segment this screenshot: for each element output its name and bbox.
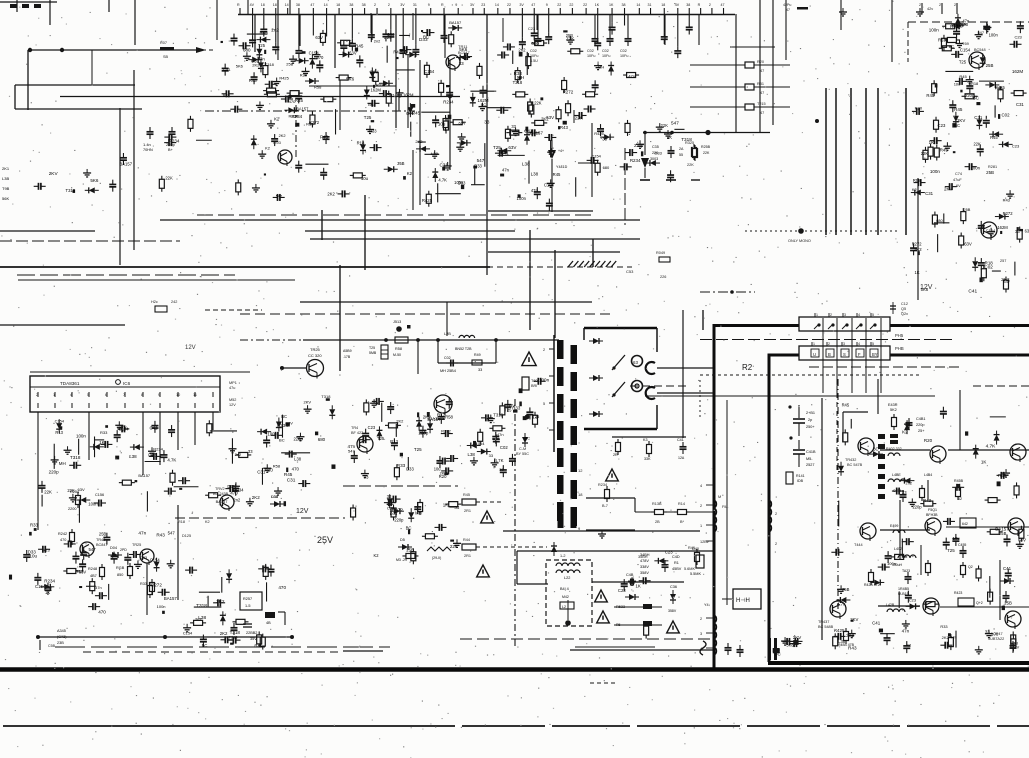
svg-text:R42B 472: R42B 472 bbox=[864, 583, 880, 587]
svg-text:62: 62 bbox=[958, 497, 962, 501]
svg-text:25B: 25B bbox=[286, 61, 293, 66]
svg-text:C53: C53 bbox=[626, 269, 634, 274]
svg-text:22K: 22K bbox=[921, 151, 929, 156]
svg-text:2K2: 2K2 bbox=[252, 495, 260, 500]
svg-text:R242: R242 bbox=[58, 532, 67, 536]
svg-text:470: 470 bbox=[60, 538, 66, 542]
svg-text:TR432: TR432 bbox=[845, 458, 856, 462]
svg-text:35V: 35V bbox=[250, 637, 257, 641]
svg-text:B*: B* bbox=[680, 520, 685, 524]
svg-text:M3 -29: M3 -29 bbox=[396, 558, 407, 562]
svg-text:9: 9 bbox=[546, 3, 548, 7]
svg-text:R43: R43 bbox=[560, 125, 569, 130]
svg-text:1-2: 1-2 bbox=[560, 554, 566, 558]
svg-text:R425: R425 bbox=[422, 198, 433, 203]
svg-text:R: R bbox=[237, 3, 240, 7]
svg-text:C154: C154 bbox=[309, 50, 320, 55]
svg-text:C23: C23 bbox=[909, 598, 916, 603]
svg-text:12A: 12A bbox=[678, 456, 685, 460]
svg-text:K2: K2 bbox=[902, 430, 908, 435]
svg-text:547: 547 bbox=[168, 530, 176, 535]
svg-text:M42: M42 bbox=[562, 595, 569, 599]
svg-text:2n2: 2n2 bbox=[374, 39, 381, 44]
svg-text:38: 38 bbox=[349, 3, 353, 7]
svg-text:2KV: 2KV bbox=[944, 187, 952, 192]
svg-text:R49: R49 bbox=[474, 353, 481, 357]
svg-text:U: U bbox=[813, 352, 816, 357]
svg-text:47: 47 bbox=[721, 3, 725, 7]
svg-text:2B: 2B bbox=[655, 520, 660, 524]
svg-text:C41: C41 bbox=[223, 67, 231, 72]
svg-text:R281: R281 bbox=[988, 165, 997, 169]
svg-text:L42B: L42B bbox=[886, 603, 895, 607]
svg-text:22K: 22K bbox=[703, 151, 710, 155]
svg-text:C23: C23 bbox=[387, 505, 395, 510]
svg-text:33: 33 bbox=[489, 453, 493, 458]
svg-text:PHB: PHB bbox=[895, 346, 904, 351]
svg-text:4.7K: 4.7K bbox=[986, 444, 997, 450]
svg-text:R5: R5 bbox=[616, 623, 621, 627]
svg-text:63V: 63V bbox=[286, 421, 293, 426]
svg-text:R58: R58 bbox=[395, 347, 402, 351]
svg-text:25B: 25B bbox=[963, 207, 970, 212]
svg-text:R31: R31 bbox=[757, 82, 764, 86]
svg-text:H2c: H2c bbox=[151, 300, 158, 304]
svg-text:C4D: C4D bbox=[672, 555, 680, 559]
svg-text:F5Q1: F5Q1 bbox=[928, 508, 937, 512]
svg-text:R45: R45 bbox=[412, 110, 421, 115]
svg-text:162M: 162M bbox=[997, 225, 1008, 230]
svg-text:70HN: 70HN bbox=[143, 148, 153, 152]
svg-text:1K: 1K bbox=[609, 3, 614, 7]
svg-text:42v: 42v bbox=[927, 7, 933, 11]
svg-text:34BH: 34BH bbox=[640, 553, 650, 557]
svg-text:R425: R425 bbox=[393, 50, 404, 55]
svg-text:4B7: 4B7 bbox=[90, 574, 97, 578]
svg-text:Q2: Q2 bbox=[968, 565, 973, 569]
svg-text:TR25: TR25 bbox=[310, 347, 321, 352]
svg-text:38: 38 bbox=[686, 3, 690, 7]
svg-text:B+: B+ bbox=[168, 148, 174, 152]
svg-text:BN52 T2B: BN52 T2B bbox=[455, 347, 472, 351]
svg-text:L402: L402 bbox=[894, 547, 902, 551]
svg-text:25+: 25+ bbox=[918, 429, 925, 433]
svg-text:38: 38 bbox=[362, 3, 366, 7]
svg-text:R43: R43 bbox=[156, 532, 165, 537]
svg-text:2: 2 bbox=[700, 617, 702, 621]
svg-text:T25: T25 bbox=[377, 436, 385, 441]
svg-text:23: 23 bbox=[481, 3, 485, 7]
svg-text:R45: R45 bbox=[842, 403, 850, 408]
svg-text:C41: C41 bbox=[872, 620, 881, 625]
svg-text:K2: K2 bbox=[205, 520, 210, 524]
svg-text:C154: C154 bbox=[183, 631, 193, 636]
svg-text:R45: R45 bbox=[959, 74, 967, 79]
svg-text:R402 332: R402 332 bbox=[886, 447, 902, 451]
svg-text:12V: 12V bbox=[920, 284, 933, 291]
svg-text:L22: L22 bbox=[564, 576, 570, 580]
svg-text:R43: R43 bbox=[1003, 198, 1011, 203]
svg-text:2K2: 2K2 bbox=[327, 192, 335, 197]
svg-text:BC: BC bbox=[973, 95, 980, 100]
svg-text:22: 22 bbox=[569, 3, 573, 7]
svg-text:C02: C02 bbox=[984, 265, 993, 270]
svg-text:BC: BC bbox=[202, 643, 208, 648]
svg-text:4.7K: 4.7K bbox=[167, 458, 176, 463]
svg-text:T25: T25 bbox=[364, 115, 372, 120]
svg-text:R141: R141 bbox=[796, 474, 805, 478]
svg-text:47n: 47n bbox=[531, 188, 539, 193]
svg-text:C23: C23 bbox=[938, 123, 946, 128]
svg-text:25B: 25B bbox=[99, 531, 107, 536]
svg-text:R: R bbox=[441, 3, 444, 7]
svg-text:22K: 22K bbox=[165, 175, 173, 180]
svg-text:TA23: TA23 bbox=[902, 569, 910, 573]
svg-text:BA157: BA157 bbox=[530, 130, 544, 135]
svg-text:C154: C154 bbox=[118, 426, 129, 431]
svg-text:45BV: 45BV bbox=[672, 567, 682, 571]
svg-text:2n2: 2n2 bbox=[518, 47, 526, 52]
svg-text:2: 2 bbox=[919, 3, 921, 7]
svg-text:BA157: BA157 bbox=[138, 473, 150, 478]
svg-text:25B: 25B bbox=[1004, 601, 1012, 606]
svg-text:IC6: IC6 bbox=[123, 381, 131, 386]
svg-text:T318: T318 bbox=[229, 634, 238, 639]
svg-text:25B: 25B bbox=[406, 548, 414, 553]
svg-text:100n: 100n bbox=[517, 196, 527, 201]
svg-text:250+: 250+ bbox=[806, 425, 815, 429]
svg-text:R43: R43 bbox=[249, 78, 258, 83]
svg-text:33K: 33K bbox=[644, 457, 651, 461]
svg-text:M: M bbox=[718, 495, 721, 499]
svg-text:47n: 47n bbox=[138, 531, 146, 536]
svg-text:5MB: 5MB bbox=[369, 351, 377, 355]
svg-text:C02: C02 bbox=[530, 49, 537, 53]
svg-text:R1: R1 bbox=[674, 561, 679, 565]
svg-text:T25: T25 bbox=[369, 346, 375, 350]
svg-text:547: 547 bbox=[276, 193, 283, 198]
svg-text:T25: T25 bbox=[947, 548, 955, 553]
svg-text:23B: 23B bbox=[57, 641, 64, 645]
svg-text:C31: C31 bbox=[287, 477, 296, 482]
svg-text:47n: 47n bbox=[950, 634, 957, 639]
svg-text:R234: R234 bbox=[233, 488, 244, 493]
svg-text:B: B bbox=[828, 352, 831, 357]
svg-text:547: 547 bbox=[388, 92, 395, 97]
svg-text:T25: T25 bbox=[532, 414, 540, 419]
svg-text:2p: 2p bbox=[808, 418, 812, 422]
svg-text:33: 33 bbox=[478, 368, 482, 372]
svg-text:L4B4: L4B4 bbox=[924, 473, 932, 477]
svg-text:3003: 3003 bbox=[650, 157, 658, 161]
svg-text:K2: K2 bbox=[265, 145, 270, 150]
svg-text:162M: 162M bbox=[370, 87, 381, 92]
svg-text:100n: 100n bbox=[929, 28, 940, 33]
svg-text:C41: C41 bbox=[677, 438, 684, 442]
svg-text:18: 18 bbox=[273, 3, 277, 7]
svg-text:1K: 1K bbox=[915, 270, 920, 275]
svg-text:R45: R45 bbox=[284, 472, 293, 477]
svg-text:18: 18 bbox=[336, 3, 340, 7]
svg-text:T318: T318 bbox=[66, 188, 76, 193]
svg-text:42Pu: 42Pu bbox=[783, 3, 791, 7]
svg-text:63V: 63V bbox=[315, 35, 323, 40]
svg-text:R45: R45 bbox=[355, 43, 364, 48]
svg-text:162M: 162M bbox=[403, 92, 414, 97]
svg-text:C02: C02 bbox=[1002, 113, 1011, 118]
svg-text:TR25: TR25 bbox=[132, 543, 141, 547]
svg-text:BC: BC bbox=[481, 102, 487, 107]
svg-text:R248: R248 bbox=[88, 567, 97, 571]
svg-text:BRI: BRI bbox=[531, 384, 537, 388]
svg-text:R45: R45 bbox=[926, 93, 934, 98]
svg-text:R20: R20 bbox=[300, 72, 308, 77]
svg-text:C41: C41 bbox=[968, 288, 977, 294]
svg-text:C35: C35 bbox=[652, 145, 659, 149]
svg-text:C23: C23 bbox=[368, 425, 376, 430]
svg-text:R425: R425 bbox=[279, 76, 289, 81]
svg-text:M-50: M-50 bbox=[393, 353, 401, 357]
svg-text:3: 3 bbox=[844, 313, 846, 317]
svg-text:R33: R33 bbox=[940, 624, 947, 629]
svg-text:C02: C02 bbox=[587, 49, 594, 53]
svg-text:TZ03: TZ03 bbox=[272, 141, 281, 145]
svg-text:C23: C23 bbox=[618, 588, 626, 593]
svg-text:2: 2 bbox=[709, 3, 711, 7]
svg-text:470: 470 bbox=[278, 585, 286, 590]
svg-text:PH5: PH5 bbox=[895, 333, 904, 338]
svg-text:3V: 3V bbox=[400, 3, 405, 7]
svg-text:L2B: L2B bbox=[444, 332, 451, 336]
svg-text:11: 11 bbox=[193, 393, 197, 397]
svg-text:2n2: 2n2 bbox=[195, 617, 202, 622]
svg-text:1K: 1K bbox=[667, 135, 672, 140]
svg-text:C154: C154 bbox=[960, 48, 971, 53]
svg-text:F: F bbox=[858, 352, 861, 357]
svg-text:547: 547 bbox=[88, 547, 96, 552]
svg-text:R234: R234 bbox=[291, 114, 302, 119]
svg-text:T9B: T9B bbox=[2, 186, 10, 191]
svg-text:220p: 220p bbox=[913, 505, 923, 510]
svg-text:C-M: C-M bbox=[519, 447, 526, 451]
svg-text:MH 25B4: MH 25B4 bbox=[440, 369, 456, 373]
svg-text:63: 63 bbox=[633, 360, 638, 365]
svg-text:22K: 22K bbox=[575, 116, 583, 121]
svg-text:T318: T318 bbox=[70, 455, 81, 460]
svg-text:L38: L38 bbox=[294, 457, 302, 462]
svg-text:K2: K2 bbox=[912, 187, 917, 192]
svg-text:C02: C02 bbox=[620, 49, 627, 53]
svg-text:2KV: 2KV bbox=[370, 70, 378, 75]
svg-text:63V: 63V bbox=[508, 145, 517, 150]
svg-text:547: 547 bbox=[978, 30, 985, 35]
svg-text:5: 5 bbox=[543, 402, 545, 406]
svg-text:470: 470 bbox=[289, 99, 297, 104]
svg-text:25V: 25V bbox=[317, 535, 333, 545]
svg-text:R58: R58 bbox=[913, 178, 922, 183]
svg-text:2K2: 2K2 bbox=[279, 133, 286, 138]
svg-text:2PD: 2PD bbox=[120, 548, 127, 552]
svg-text:H⊣H: H⊣H bbox=[736, 597, 750, 604]
svg-text:47: 47 bbox=[786, 8, 790, 12]
svg-text:BC 243B: BC 243B bbox=[213, 492, 229, 496]
svg-text:5: 5 bbox=[87, 393, 89, 397]
svg-text:D5: D5 bbox=[400, 538, 405, 542]
svg-text:L2: L2 bbox=[562, 605, 566, 609]
svg-text:T25: T25 bbox=[504, 408, 512, 413]
svg-text:R20: R20 bbox=[757, 60, 764, 64]
svg-text:220p: 220p bbox=[166, 142, 176, 147]
svg-text:38: 38 bbox=[296, 3, 300, 7]
svg-text:BC 548B: BC 548B bbox=[818, 625, 834, 629]
svg-text:25B: 25B bbox=[986, 170, 994, 175]
svg-text:1.4n: 1.4n bbox=[143, 142, 151, 147]
svg-text:47: 47 bbox=[310, 3, 314, 7]
svg-text:CC 320: CC 320 bbox=[308, 353, 322, 358]
svg-text:47u: 47u bbox=[229, 386, 235, 390]
svg-text:C454: C454 bbox=[893, 489, 901, 493]
svg-text:MH: MH bbox=[59, 461, 66, 466]
svg-text:2A: 2A bbox=[679, 147, 684, 151]
svg-text:T318: T318 bbox=[321, 394, 331, 399]
svg-text:D33: D33 bbox=[419, 37, 428, 42]
svg-text:R45: R45 bbox=[995, 86, 1003, 91]
svg-text:C23: C23 bbox=[1014, 35, 1022, 40]
svg-text:B-7: B-7 bbox=[602, 504, 608, 508]
svg-text:220p: 220p bbox=[49, 469, 59, 474]
svg-text:B4| 4: B4| 4 bbox=[560, 587, 569, 591]
svg-text:2KV: 2KV bbox=[303, 399, 311, 404]
svg-text:33: 33 bbox=[499, 467, 504, 472]
svg-text:8: 8 bbox=[141, 393, 143, 397]
svg-text:9: 9 bbox=[455, 3, 457, 7]
svg-text:2K2: 2K2 bbox=[415, 139, 423, 144]
svg-text:1: 1 bbox=[813, 342, 815, 346]
svg-text:C31: C31 bbox=[1016, 102, 1024, 107]
svg-text:10Fu: 10Fu bbox=[620, 54, 628, 58]
svg-text:33: 33 bbox=[364, 475, 369, 480]
svg-text:SB: SB bbox=[163, 55, 169, 59]
svg-text:3V: 3V bbox=[470, 3, 475, 7]
svg-text:22K: 22K bbox=[566, 36, 574, 41]
svg-text:L4BE: L4BE bbox=[892, 473, 901, 477]
svg-text:162M: 162M bbox=[1012, 69, 1024, 74]
svg-text:D33: D33 bbox=[655, 150, 663, 155]
svg-text:L38: L38 bbox=[531, 172, 539, 177]
svg-text:25B: 25B bbox=[999, 531, 1007, 536]
svg-text:2: 2 bbox=[700, 504, 702, 508]
svg-text:2R1: 2R1 bbox=[464, 509, 471, 513]
svg-text:100n: 100n bbox=[157, 604, 166, 609]
svg-text:R33: R33 bbox=[369, 128, 377, 133]
svg-text:100n: 100n bbox=[76, 434, 86, 439]
svg-text:C31: C31 bbox=[257, 469, 266, 474]
svg-text:BC548: BC548 bbox=[974, 48, 986, 52]
svg-text:5: 5 bbox=[872, 313, 874, 317]
svg-text:3: 3 bbox=[700, 632, 702, 636]
svg-text:T215: T215 bbox=[757, 102, 766, 106]
svg-text:C02: C02 bbox=[444, 356, 451, 360]
svg-text:C23: C23 bbox=[665, 550, 673, 555]
svg-text:33: 33 bbox=[511, 124, 516, 129]
svg-text:2K1: 2K1 bbox=[2, 166, 10, 171]
svg-text:3: 3 bbox=[843, 342, 845, 346]
svg-text:R257: R257 bbox=[243, 597, 252, 601]
svg-text:C4B1: C4B1 bbox=[916, 417, 926, 421]
svg-text:R45: R45 bbox=[254, 644, 262, 649]
svg-text:18: 18 bbox=[578, 492, 583, 497]
svg-text:38: 38 bbox=[622, 3, 626, 7]
svg-text:R18: R18 bbox=[178, 520, 185, 524]
svg-text:TR48: TR48 bbox=[96, 538, 105, 542]
svg-text:547: 547 bbox=[671, 121, 679, 126]
svg-text:2: 2 bbox=[388, 3, 390, 7]
svg-text:BC: BC bbox=[954, 123, 960, 128]
svg-text:R272: R272 bbox=[912, 241, 922, 246]
svg-text:TR11: TR11 bbox=[458, 44, 468, 49]
svg-text:22K: 22K bbox=[534, 100, 542, 105]
svg-text:R14: R14 bbox=[678, 502, 685, 506]
svg-text:220p: 220p bbox=[394, 517, 404, 522]
svg-text:Q+2: Q+2 bbox=[976, 601, 983, 605]
svg-text:2K2: 2K2 bbox=[541, 116, 549, 121]
svg-text:+4+: +4+ bbox=[558, 149, 564, 153]
svg-text:2: 2 bbox=[775, 542, 777, 546]
svg-text:4: 4 bbox=[70, 393, 72, 397]
svg-text:R272: R272 bbox=[563, 90, 574, 95]
svg-text:5K2: 5K2 bbox=[890, 408, 897, 412]
svg-text:C31: C31 bbox=[974, 115, 983, 120]
svg-text:IDB: IDB bbox=[797, 479, 804, 483]
svg-text:100n: 100n bbox=[539, 378, 550, 383]
svg-text:C23: C23 bbox=[528, 26, 535, 31]
svg-text:M5-: M5- bbox=[806, 457, 813, 461]
svg-text:4: 4 bbox=[858, 342, 860, 346]
svg-text:K2: K2 bbox=[373, 553, 379, 558]
svg-text:R4B4 47B: R4B4 47B bbox=[838, 643, 855, 647]
svg-text:TR4: TR4 bbox=[351, 426, 358, 430]
svg-text:14: 14 bbox=[495, 3, 499, 7]
svg-text:33: 33 bbox=[484, 120, 490, 125]
svg-text:31: 31 bbox=[413, 3, 417, 7]
svg-text:10Fu: 10Fu bbox=[602, 54, 610, 58]
svg-text:(29-II): (29-II) bbox=[432, 556, 441, 560]
svg-text:A345: A345 bbox=[57, 629, 66, 633]
svg-text:BU-2508: BU-2508 bbox=[428, 416, 445, 421]
svg-text:R45: R45 bbox=[940, 147, 949, 152]
svg-text:C154: C154 bbox=[592, 154, 602, 159]
svg-text:R45: R45 bbox=[463, 493, 470, 497]
svg-text:10Fu: 10Fu bbox=[587, 54, 595, 58]
svg-text:E43R: E43R bbox=[888, 403, 898, 407]
svg-text:33: 33 bbox=[454, 505, 459, 510]
svg-text:9: 9 bbox=[428, 3, 430, 7]
svg-text:33: 33 bbox=[387, 494, 392, 499]
svg-text:R33: R33 bbox=[100, 430, 108, 435]
svg-text:358V: 358V bbox=[640, 571, 649, 575]
svg-text:4.7K: 4.7K bbox=[495, 458, 504, 463]
svg-text:33: 33 bbox=[1015, 229, 1020, 234]
svg-text:D33: D33 bbox=[271, 495, 278, 499]
svg-text:47uF: 47uF bbox=[953, 178, 962, 182]
svg-text:BC847: BC847 bbox=[96, 543, 108, 547]
svg-text:T69: T69 bbox=[962, 41, 970, 46]
svg-text:T25: T25 bbox=[414, 447, 422, 452]
svg-text:BA157: BA157 bbox=[119, 161, 132, 166]
svg-text:257: 257 bbox=[1000, 259, 1006, 263]
svg-text:T444: T444 bbox=[854, 543, 863, 547]
svg-text:1K: 1K bbox=[595, 3, 600, 7]
